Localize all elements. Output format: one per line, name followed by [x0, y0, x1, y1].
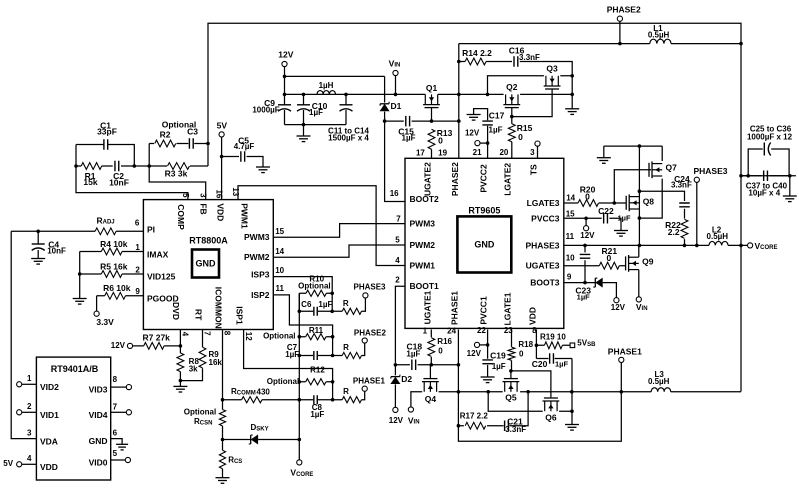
terminal 12V pvcc3 [584, 226, 589, 231]
svg-text:Q4: Q4 [425, 394, 437, 404]
transistor Q5 [503, 379, 520, 403]
label RT9401A/B [51, 364, 99, 374]
svg-text:11: 11 [276, 284, 285, 293]
pin label PHASE1 bottom [449, 291, 459, 325]
junction C16 Q3 [570, 74, 574, 78]
svg-text:24: 24 [447, 327, 456, 336]
svg-text:16: 16 [390, 189, 399, 198]
label L2 [712, 226, 722, 235]
label PHASE1 mid [353, 377, 386, 386]
terminal 12V dvd [127, 343, 132, 348]
wire R5 [80, 273, 144, 275]
svg-text:5: 5 [113, 449, 118, 458]
label C4 [48, 239, 59, 249]
svg-text:VID2: VID2 [40, 382, 59, 392]
label R22 value [668, 227, 680, 237]
resistor R13 [428, 129, 435, 149]
wire ISP3 R to PHASE3 [332, 298, 365, 311]
transistor Q1 [423, 83, 440, 108]
label R ph3 [343, 299, 349, 308]
svg-text:UGATE3: UGATE3 [526, 261, 560, 271]
wire VID0 [111, 459, 126, 461]
label C6 value [318, 300, 332, 309]
capacitor C11-C14 [340, 105, 353, 111]
label L3 value [648, 377, 670, 386]
svg-text:9: 9 [567, 273, 572, 282]
svg-text:5V: 5V [3, 459, 13, 468]
wire gnd stem filter [303, 125, 305, 136]
svg-text:LGATE2: LGATE2 [502, 163, 512, 196]
label R21 value [607, 253, 612, 263]
svg-text:17: 17 [416, 149, 425, 158]
svg-text:21: 21 [473, 148, 482, 157]
svg-text:3: 3 [199, 193, 208, 198]
label R20 value [585, 192, 590, 202]
svg-text:GND: GND [474, 239, 495, 249]
pin number 1 bottom U2 [423, 327, 428, 336]
pin number 7 right U3 [113, 402, 118, 411]
wire Q5 Q6 gate tie [511, 371, 551, 398]
pin number 23 bottom U2 [504, 326, 513, 335]
svg-text:8: 8 [113, 375, 118, 384]
transistor Q6 [543, 398, 560, 423]
label R ph2 [343, 343, 349, 352]
label Optional R10 [298, 281, 330, 290]
label 12V pvcc2 [465, 128, 480, 137]
wire R11 box [299, 337, 332, 356]
pin number 8 bottom U1 [223, 331, 232, 336]
label C5 value [234, 142, 255, 151]
diode D2 [390, 374, 412, 384]
svg-text:3.3nF: 3.3nF [505, 425, 526, 434]
resistor R ph2 [342, 352, 361, 358]
svg-text:2.2: 2.2 [668, 227, 680, 237]
svg-text:9: 9 [135, 287, 140, 296]
label C21 value [505, 425, 526, 434]
wire ICOMMON vertical [222, 330, 224, 478]
wire C20 gnd vertical [571, 359, 573, 425]
svg-text:2: 2 [27, 402, 32, 411]
resistor R14 [465, 58, 486, 65]
label C5 [238, 136, 249, 146]
label C10 value [309, 108, 323, 117]
junction R12C8 [331, 380, 335, 402]
junction Q2 gnd [486, 93, 574, 97]
junction RCOMM [221, 398, 225, 402]
wire VID4 [111, 411, 127, 413]
wire PWM2 link [273, 245, 405, 257]
svg-text:4: 4 [27, 454, 32, 463]
junction ph3 top [638, 144, 642, 148]
svg-text:5: 5 [395, 236, 400, 245]
wire Q4 gate lead [429, 365, 431, 379]
terminal VID2 [17, 382, 22, 387]
wire input rail [285, 93, 426, 95]
pin label TS top [529, 164, 539, 175]
pin number 12 bottom U1 [244, 332, 253, 341]
label RADJ [97, 215, 115, 225]
op-amp U1 RT8800A body [143, 200, 273, 330]
svg-text:COMP: COMP [176, 204, 186, 230]
terminal 12V pvcc1 [474, 342, 479, 347]
svg-text:R: R [343, 299, 349, 308]
pin number 10 right U1 [275, 266, 284, 275]
svg-text:0: 0 [519, 349, 524, 358]
terminal VCORE right [748, 243, 753, 248]
svg-text:RT8800A: RT8800A [189, 235, 228, 245]
svg-text:PVCC3: PVCC3 [531, 213, 560, 223]
label 3.3V [96, 317, 114, 327]
svg-text:16: 16 [215, 189, 224, 198]
junction DSKY [221, 438, 225, 442]
label R3 3k [165, 168, 188, 178]
inductor 1uH [317, 91, 335, 95]
junction rail [283, 93, 398, 97]
capacitor C7 [314, 351, 317, 360]
wire C17 to pin21 [487, 126, 489, 159]
svg-text:1500µF x 4: 1500µF x 4 [328, 134, 369, 143]
capacitor C22 [604, 213, 608, 224]
label R1 value [83, 177, 97, 187]
wire VID3 [111, 386, 127, 388]
wire R13 to pin17 [431, 129, 433, 158]
junction PHASE2 L1 [618, 42, 622, 46]
junction L1 bus [739, 42, 743, 46]
svg-text:R7 27k: R7 27k [142, 333, 170, 343]
svg-text:ISP1: ISP1 [234, 306, 244, 325]
ground R8R9 [173, 386, 187, 392]
wire C9 stem [284, 94, 286, 124]
svg-text:10nF: 10nF [109, 178, 129, 188]
pin label UGATE2 top [423, 162, 433, 196]
junction boot3 [583, 281, 587, 285]
svg-text:Q7: Q7 [666, 162, 678, 172]
wire VDD U3 [22, 463, 37, 465]
resistor R2 [155, 140, 176, 147]
svg-text:14: 14 [275, 247, 284, 256]
pin number 8 right U3 [113, 375, 118, 384]
inductor L1 [650, 39, 671, 43]
junction 12V D1 line [283, 75, 287, 79]
pin label LGATE3 [527, 198, 560, 208]
capacitor C6 [314, 307, 317, 316]
pin number 22 bottom U2 [477, 326, 486, 335]
resistor R15 [508, 124, 515, 142]
svg-text:C20: C20 [532, 359, 548, 369]
label C19 [490, 350, 506, 360]
label VIN q4 [408, 416, 420, 426]
junction central [298, 335, 302, 441]
wire cap bank line [741, 175, 796, 177]
label 12V pvcc3 [580, 231, 595, 240]
pin number 1 left U3 [27, 374, 32, 383]
diode D boot3 [593, 278, 602, 288]
junction R20 node [613, 201, 617, 205]
svg-text:D2: D2 [401, 374, 412, 384]
resistor R9 [199, 347, 206, 368]
wire R1 C2 branch [76, 165, 134, 167]
pin number 10 right U2 [566, 254, 575, 263]
wire ph3 gnd stem [603, 146, 605, 158]
junction D1 gate line [383, 119, 387, 123]
label C1 value [97, 126, 117, 136]
label C2 value [109, 178, 129, 188]
svg-text:PHASE3: PHASE3 [693, 166, 727, 176]
svg-text:1µF: 1µF [318, 300, 332, 309]
junction PHASE2 verticals [457, 60, 461, 96]
label Optional R11 [263, 332, 295, 341]
svg-text:Optional: Optional [298, 281, 330, 290]
wire R10 box [299, 293, 332, 311]
resistor R19 [544, 342, 562, 349]
resistor R20 [578, 200, 599, 207]
capacitor C16 [514, 56, 518, 67]
svg-text:PWM3: PWM3 [410, 219, 436, 229]
resistor RCOMM [242, 397, 262, 403]
wire phase1 rail [439, 391, 741, 393]
svg-text:1µH: 1µH [319, 81, 334, 90]
label R16 value [438, 346, 443, 355]
wire VID1 [22, 411, 37, 413]
capacitor C1 [104, 139, 108, 150]
label RT8800A GND [196, 259, 217, 269]
op-amp U2 RT9605 body [405, 158, 564, 328]
svg-text:VDD: VDD [215, 203, 225, 221]
terminal TS open [535, 141, 540, 146]
label C15 [398, 127, 414, 137]
wire RCOMM [223, 399, 300, 401]
label R16 [437, 337, 452, 346]
transistor Q4 [422, 379, 439, 404]
pin label PVCC3 [531, 213, 560, 223]
pin label BOOT3 [530, 278, 560, 288]
svg-text:3: 3 [530, 148, 535, 157]
wire PHASE2 stem [619, 21, 621, 43]
wire Q2 gate lead [511, 108, 513, 117]
wire Q7 vertical [639, 146, 662, 218]
svg-text:BOOT3: BOOT3 [530, 278, 560, 288]
wire R6 [97, 295, 144, 297]
wire ph3 top line [604, 145, 662, 147]
svg-text:7: 7 [396, 215, 401, 224]
svg-text:3.3V: 3.3V [96, 317, 114, 327]
svg-text:RT: RT [193, 309, 203, 321]
label C20 value [555, 360, 568, 369]
junction phase1 rail [457, 390, 623, 394]
svg-text:12: 12 [244, 332, 253, 341]
svg-text:0.5µH: 0.5µH [648, 377, 670, 386]
wire pin14 R20 [564, 202, 626, 204]
resistor R8 [177, 353, 184, 372]
label C7 value [285, 350, 299, 359]
resistor R18 [508, 347, 515, 360]
label RT8800A [189, 235, 228, 245]
label C9 value [252, 106, 279, 115]
svg-text:ICOMMON: ICOMMON [214, 287, 224, 329]
svg-text:22: 22 [477, 326, 486, 335]
svg-text:VID0: VID0 [89, 458, 108, 468]
wire VDA long vertical [11, 231, 36, 438]
pin number 5 right U3 [113, 449, 118, 458]
label R12 [310, 366, 325, 375]
label L1 value [648, 31, 670, 40]
svg-text:Q8: Q8 [643, 197, 655, 207]
pin label FB top U1 [198, 203, 208, 214]
pin label VID2 U3 [40, 382, 59, 392]
terminal VID4 [126, 410, 131, 415]
svg-text:C3: C3 [187, 127, 198, 137]
svg-text:Q2: Q2 [506, 82, 518, 92]
pin number 3 top U2 [530, 148, 535, 157]
capacitor C8 [314, 395, 317, 404]
label R1 [85, 171, 96, 181]
label R7 27k [142, 333, 170, 343]
wire ISP1 entry [244, 330, 333, 382]
svg-text:11: 11 [566, 232, 575, 241]
svg-text:PHASE3: PHASE3 [525, 240, 559, 250]
svg-text:PHASE2: PHASE2 [607, 5, 641, 15]
svg-text:14: 14 [566, 194, 575, 203]
ground R4R5 [73, 299, 87, 305]
svg-text:ISP2: ISP2 [251, 290, 270, 300]
terminal PHASE1 [619, 357, 624, 362]
svg-text:0: 0 [585, 192, 590, 202]
label Optional R12 [267, 377, 299, 386]
label 12V pvcc1 [467, 349, 482, 358]
svg-text:4.7µF: 4.7µF [234, 142, 255, 151]
svg-text:Optional: Optional [263, 332, 295, 341]
label R8 [189, 357, 200, 366]
svg-text:1000µF: 1000µF [252, 106, 279, 115]
svg-text:10µF x 4: 10µF x 4 [748, 189, 780, 198]
RT8800A GND pad [192, 250, 219, 278]
resistor RADJ [95, 228, 116, 235]
wire 12V stem pvcc3 [585, 218, 587, 225]
svg-text:C22: C22 [598, 206, 614, 216]
label C37 to C40 [746, 181, 788, 190]
svg-text:VDD: VDD [40, 462, 58, 472]
label RT9605 [468, 205, 500, 215]
pin label ISP1 bottom U1 [234, 306, 244, 325]
junction DVD [179, 344, 183, 348]
wire cap bank lower [741, 175, 790, 177]
pin label BOOT1 [410, 281, 440, 291]
terminal PHASE1 mid [362, 386, 367, 391]
wire R17 C21 [458, 392, 528, 426]
wire RT vertical [180, 330, 202, 381]
label PHASE1 bottom [608, 347, 642, 357]
wire cap bank gnd stem [789, 176, 791, 196]
label RT9605 GND [474, 239, 495, 249]
capacitor C18 [412, 360, 416, 371]
svg-text:1µF: 1µF [618, 213, 631, 222]
wire Q9 vertical [638, 245, 640, 296]
terminal 3.3V [94, 311, 99, 316]
svg-text:R: R [343, 387, 349, 396]
pin label UGATE1 bottom [423, 290, 433, 324]
wire R12 box [299, 382, 332, 400]
wire R18 [511, 330, 513, 371]
wire R7 [133, 345, 181, 347]
wire C24 branch [639, 191, 684, 245]
pin number 4 bottom U1 [180, 332, 189, 337]
label R22 [665, 220, 681, 230]
wire 3.3V stem [96, 296, 98, 311]
pin number 2 left U2 [395, 276, 400, 285]
svg-text:PVCC1: PVCC1 [479, 296, 489, 325]
svg-text:LGATE1: LGATE1 [503, 292, 513, 325]
svg-text:R: R [343, 343, 349, 352]
ground C17 [467, 115, 481, 121]
capacitor C10 [297, 105, 310, 111]
svg-text:Optional: Optional [267, 377, 299, 386]
svg-text:PWM2: PWM2 [244, 252, 270, 262]
label C16 [509, 45, 525, 55]
diode DSKY [249, 435, 258, 445]
pin label VID3 U3 [89, 385, 108, 395]
wire R16 [430, 330, 432, 365]
label C11 to C14 [328, 127, 369, 136]
label RCOMM value [257, 387, 271, 396]
svg-text:VDD: VDD [527, 307, 537, 325]
svg-text:PWM1: PWM1 [410, 261, 436, 271]
capacitor C25-C36 [764, 143, 770, 156]
svg-text:4: 4 [180, 332, 189, 337]
capacitor C4 [32, 244, 45, 250]
svg-text:13: 13 [231, 187, 240, 196]
svg-text:10: 10 [275, 266, 284, 275]
svg-text:R6 10k: R6 10k [103, 283, 131, 293]
label R2 [160, 130, 171, 140]
junction FB top [206, 142, 210, 146]
junction 12V pvcc3 [584, 217, 588, 221]
svg-text:1µF: 1µF [285, 350, 299, 359]
pin label PGOOD [147, 294, 179, 304]
svg-text:Optional: Optional [184, 408, 216, 417]
svg-text:R5 16k: R5 16k [100, 261, 128, 271]
wire R4R5 gnd [79, 252, 81, 299]
resistor R6 [105, 292, 126, 299]
pin label DVD bottom U1 [171, 302, 181, 320]
svg-text:1: 1 [423, 327, 428, 336]
svg-text:VID3: VID3 [89, 385, 108, 395]
svg-text:R3 3k: R3 3k [165, 168, 188, 178]
wire ISP2 entry [273, 295, 332, 337]
capacitor C21 [505, 420, 509, 431]
svg-text:0: 0 [518, 132, 523, 142]
svg-text:0.5µH: 0.5µH [707, 232, 729, 241]
junction C18 [394, 363, 461, 367]
label VCORE bottom [290, 468, 313, 478]
label R18 value [519, 349, 524, 358]
label C16 value [519, 53, 540, 62]
svg-text:16k: 16k [209, 358, 223, 367]
svg-text:12V: 12V [611, 303, 626, 312]
resistor R10 [306, 290, 326, 296]
svg-text:1: 1 [135, 243, 140, 252]
svg-text:UGATE1: UGATE1 [423, 290, 433, 324]
wire COMP net left loop [76, 145, 188, 200]
label C17 [489, 110, 505, 120]
pin number 16 top U1 [215, 189, 224, 198]
capacitor C9 [278, 105, 291, 111]
svg-text:2: 2 [395, 276, 400, 285]
svg-text:20: 20 [499, 148, 508, 157]
svg-text:FB: FB [198, 203, 208, 214]
label 5V U3 [3, 459, 13, 468]
svg-text:Q9: Q9 [642, 257, 654, 267]
wire C18 line [395, 364, 458, 366]
